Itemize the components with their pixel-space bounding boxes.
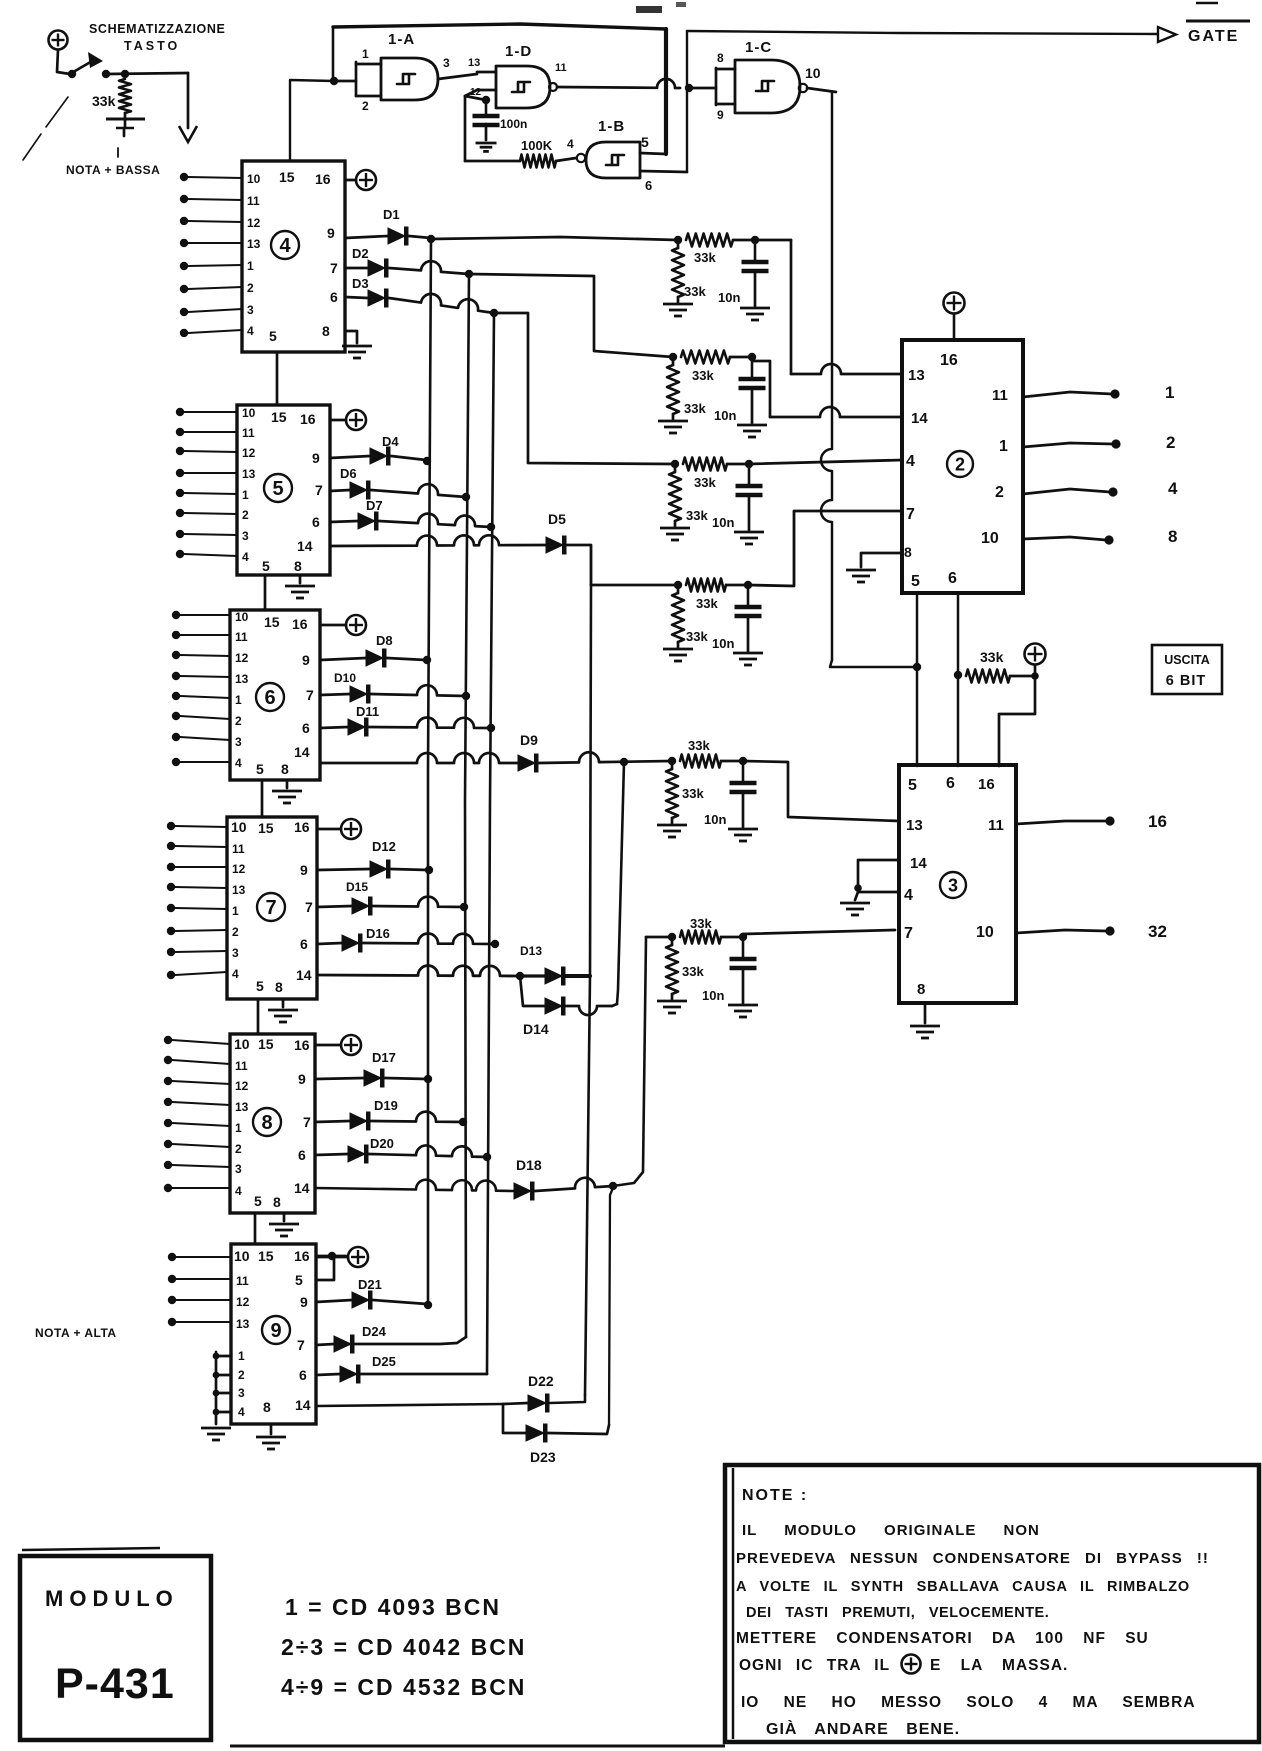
svg-text:16: 16 — [978, 776, 995, 793]
node D4-bus1 — [423, 457, 431, 465]
svg-text:33k: 33k — [684, 284, 706, 299]
svg-text:5: 5 — [641, 134, 649, 150]
node D19-bus2 — [459, 1118, 467, 1126]
svg-text:10: 10 — [981, 530, 999, 547]
svg-text:6: 6 — [946, 775, 955, 792]
svg-text:NOTE :: NOTE : — [742, 1487, 808, 1504]
note line 5 — [736, 1630, 1149, 1647]
node out bit32 — [1105, 926, 1114, 935]
ground U2 pin8 — [846, 553, 902, 582]
svg-text:6: 6 — [312, 514, 320, 530]
wire U2 out pin10 — [1023, 537, 1106, 540]
diode D10 — [320, 671, 371, 704]
wire junction to 1-C bracket — [689, 87, 716, 90]
svg-text:4: 4 — [906, 453, 915, 470]
node R2/U3pin16 — [1031, 672, 1039, 680]
diode D20 — [315, 1136, 394, 1164]
wire U7 pin14 row — [317, 966, 520, 976]
node D2-bus2 — [465, 270, 473, 278]
wire 1-D out to gate node — [557, 79, 680, 88]
IC U2 (CD4042 BCN) box — [902, 340, 1023, 593]
svg-text:D2: D2 — [352, 246, 369, 261]
IC U8 input lines from keyboard — [164, 1036, 230, 1192]
diode D15 — [317, 880, 373, 916]
node polarity junction — [954, 671, 962, 679]
svg-text:6: 6 — [330, 289, 338, 305]
svg-text:1: 1 — [247, 259, 254, 273]
svg-text:5: 5 — [262, 558, 270, 574]
svg-text:33k: 33k — [682, 964, 704, 979]
svg-text:10: 10 — [805, 65, 821, 81]
diode D12 — [317, 839, 396, 879]
op-amp U1-D (CD4093 NAND) — [496, 43, 550, 108]
node D21-bus1 — [424, 1301, 432, 1309]
svg-text:1: 1 — [235, 693, 242, 707]
diode D1 — [345, 207, 409, 246]
svg-text:10: 10 — [235, 610, 249, 624]
svg-text:16: 16 — [300, 411, 316, 427]
svg-text:13: 13 — [242, 467, 256, 481]
wire D20 to bus3 — [369, 1145, 487, 1157]
note line 4 — [746, 1605, 1049, 1621]
IC U4 input lines from keyboard — [180, 173, 242, 337]
svg-text:OGNI IC TRA IL: OGNI IC TRA IL — [739, 1657, 890, 1674]
svg-text:4: 4 — [567, 137, 574, 151]
wire bus3 (pin6 outputs) — [487, 313, 494, 1374]
svg-text:PREVEDEVA NESSUN CONDENSATORE: PREVEDEVA NESSUN CONDENSATORE DI BYPASS … — [736, 1550, 1209, 1567]
svg-text:NOTA + ALTA: NOTA + ALTA — [35, 1326, 117, 1340]
svg-text:13: 13 — [906, 817, 923, 834]
IC U9 box — [231, 1244, 316, 1424]
node D11-bus3 — [487, 724, 495, 732]
wire D3 to bus3 — [389, 294, 494, 313]
pin 1-D output bubble — [549, 62, 567, 91]
svg-text:8: 8 — [917, 981, 925, 998]
power + U7 — [317, 819, 361, 839]
diode D6 — [330, 466, 371, 500]
capacitor C1 100n — [465, 90, 527, 151]
svg-text:6: 6 — [302, 720, 310, 736]
svg-text:D9: D9 — [520, 732, 538, 748]
svg-text:5: 5 — [254, 1193, 262, 1209]
wire RC4 to U2 pin7 — [748, 511, 902, 586]
note line 1 — [742, 1522, 1040, 1539]
svg-text:14: 14 — [294, 744, 310, 760]
svg-text:11: 11 — [242, 426, 255, 440]
label parts list 2 — [281, 1634, 526, 1660]
svg-text:2: 2 — [235, 714, 242, 728]
svg-text:5: 5 — [272, 478, 283, 500]
ground U3 pin8 — [910, 1003, 940, 1038]
svg-text:9: 9 — [717, 108, 724, 122]
svg-text:33k: 33k — [92, 93, 116, 109]
wire D12 to bus1 — [391, 869, 428, 870]
svg-text:13: 13 — [247, 237, 261, 251]
svg-text:8: 8 — [261, 1112, 272, 1134]
label USCITA 6 BIT box — [1152, 645, 1222, 694]
wire RC6 to U3 pin7 — [743, 930, 895, 934]
svg-text:33k: 33k — [690, 916, 712, 931]
svg-text:DEI TASTI PREMUTI, VELOCEMENTE: DEI TASTI PREMUTI, VELOCEMENTE. — [746, 1605, 1049, 1621]
diode D14 — [520, 976, 566, 1037]
svg-text:12: 12 — [236, 1295, 250, 1309]
svg-text:11: 11 — [232, 842, 245, 856]
label SCHEMATIZZAZIONE — [89, 22, 225, 36]
MODULO P-431 box — [20, 1548, 211, 1740]
wire U9 pins 1-4 tie — [213, 1349, 245, 1424]
node clock junction — [913, 663, 921, 671]
ground switch resistor — [106, 113, 145, 136]
svg-text:12: 12 — [242, 446, 256, 460]
wire chain U5 pin5 down — [264, 575, 267, 610]
svg-text:2: 2 — [362, 99, 369, 113]
node out bit8 — [1104, 535, 1113, 544]
resistor R1 100K — [520, 138, 556, 168]
node D20-bus3 — [483, 1153, 491, 1161]
svg-text:14: 14 — [295, 1397, 311, 1413]
wire D2 node to RC2 — [469, 274, 673, 357]
svg-text:5: 5 — [256, 761, 264, 777]
wire D10 to bus2 — [371, 685, 466, 696]
wire D4 to bus1 — [391, 456, 426, 460]
wire U2 out pin11 — [1023, 392, 1112, 397]
svg-text:4: 4 — [235, 756, 242, 770]
svg-text:D14: D14 — [523, 1021, 549, 1037]
svg-text:D18: D18 — [516, 1157, 542, 1173]
svg-text:D4: D4 — [382, 434, 399, 449]
svg-text:15: 15 — [258, 820, 274, 836]
svg-text:D17: D17 — [372, 1050, 396, 1065]
label out 32 — [1148, 922, 1167, 941]
ground U3 pins14/4 — [840, 860, 899, 915]
svg-text:7: 7 — [906, 506, 915, 523]
svg-text:1-A: 1-A — [388, 31, 415, 48]
wire D21 to bus1 — [373, 1300, 427, 1304]
svg-text:USCITA: USCITA — [1164, 653, 1210, 667]
svg-text:IO NE HO MESSO SOLO 4 MA SEMBR: IO NE HO MESSO SOLO 4 MA SEMBRA — [741, 1694, 1196, 1711]
diode D25 — [316, 1354, 396, 1384]
svg-text:10: 10 — [976, 924, 994, 941]
svg-text:13: 13 — [236, 1317, 250, 1331]
svg-text:1: 1 — [238, 1349, 245, 1363]
svg-text:9: 9 — [300, 1294, 308, 1310]
wire U3 out pin11 — [1016, 821, 1106, 824]
wire switch to resistor and arrow — [106, 73, 188, 74]
svg-text:10: 10 — [231, 819, 247, 835]
svg-text:13: 13 — [235, 672, 249, 686]
pin 1-C output bubble — [799, 65, 821, 92]
wire D18 to bit32 net — [535, 1178, 613, 1191]
node D6-bus2 — [462, 493, 470, 501]
pin stubs 1-D pins 13,12 — [468, 57, 496, 98]
svg-text:5: 5 — [256, 978, 264, 994]
note line 2 — [736, 1550, 1209, 1567]
svg-text:METTERE CONDENSATORI DA 100 NF: METTERE CONDENSATORI DA 100 NF SU — [736, 1630, 1149, 1647]
wire junction to 1-A bracket — [334, 80, 356, 83]
wire chain U4 pin5 down — [276, 352, 279, 405]
svg-text:14: 14 — [294, 1180, 310, 1196]
IC U5 input lines from keyboard — [176, 408, 237, 558]
IC U7 circled number — [257, 893, 285, 921]
svg-text:11: 11 — [555, 62, 567, 74]
svg-text:9: 9 — [270, 1320, 281, 1342]
svg-text:5: 5 — [911, 573, 920, 590]
svg-text:16: 16 — [940, 352, 958, 369]
wire D9 to RC5 — [539, 752, 672, 763]
svg-text:2: 2 — [955, 455, 965, 475]
svg-text:6 BIT: 6 BIT — [1166, 673, 1206, 689]
svg-text:16: 16 — [294, 1248, 310, 1264]
svg-text:D25: D25 — [372, 1354, 396, 1369]
diode D5 — [546, 511, 567, 555]
svg-text:D20: D20 — [370, 1136, 394, 1151]
diode D3 — [345, 276, 389, 308]
svg-text:9: 9 — [300, 862, 308, 878]
node D18-bit32 — [609, 1182, 617, 1190]
svg-text:16: 16 — [294, 819, 310, 835]
svg-text:7: 7 — [315, 482, 323, 498]
label TASTO — [124, 39, 180, 53]
wire RC1 to U2 pin13 — [755, 240, 902, 374]
svg-text:12: 12 — [247, 216, 261, 230]
svg-text:D6: D6 — [340, 466, 357, 481]
svg-text:6: 6 — [300, 936, 308, 952]
svg-text:2: 2 — [995, 484, 1004, 501]
NOTE box — [725, 1465, 1259, 1742]
svg-text:6: 6 — [645, 178, 652, 193]
node out bit4 — [1108, 487, 1117, 496]
stray pencil mark — [23, 97, 68, 160]
node D10-bus2 — [462, 692, 470, 700]
wire D8 to bus1 — [387, 658, 426, 660]
wire U8 pin14 row — [315, 1180, 514, 1191]
svg-text:2: 2 — [235, 1142, 242, 1156]
wire D3 node to RC3 — [494, 313, 675, 464]
resistor R2 33k (polarity pullup) — [966, 649, 1032, 683]
IC U8 box — [230, 1034, 315, 1213]
node 1-A input junction — [330, 77, 338, 85]
svg-text:10: 10 — [234, 1248, 250, 1264]
label parts list 3 — [281, 1674, 526, 1700]
svg-text:7: 7 — [904, 925, 913, 942]
svg-text:33k: 33k — [696, 596, 718, 611]
svg-text:1-B: 1-B — [598, 118, 625, 135]
label MODULO — [45, 1586, 179, 1611]
wire 1-C out — [807, 88, 836, 92]
ground U8 — [269, 1213, 299, 1236]
resistor/cap network RC6 (bit32) — [657, 916, 758, 1017]
wire D16 to bus3 — [363, 934, 495, 944]
svg-text:7: 7 — [297, 1337, 305, 1353]
svg-text:A VOLTE IL SYNTH SBALLAVA CAUS: A VOLTE IL SYNTH SBALLAVA CAUSA IL RIMBA… — [736, 1579, 1190, 1595]
svg-text:16: 16 — [315, 171, 331, 187]
power + U5 — [330, 410, 366, 430]
svg-text:9: 9 — [298, 1071, 306, 1087]
label parts list 1 — [285, 1594, 501, 1620]
IC U3 circled number — [940, 872, 966, 898]
wire cap node to 100K — [465, 96, 520, 161]
IC U7 input lines from keyboard — [167, 822, 227, 979]
svg-text:3: 3 — [235, 1162, 242, 1176]
note line 6b — [930, 1657, 1068, 1674]
svg-text:D13: D13 — [520, 944, 542, 958]
svg-text:11: 11 — [236, 1274, 249, 1288]
resistor/cap network RC5 (bit16) — [657, 738, 758, 841]
svg-text:6: 6 — [948, 570, 957, 587]
svg-text:SCHEMATIZZAZIONE: SCHEMATIZZAZIONE — [89, 22, 225, 36]
svg-text:16: 16 — [294, 1037, 310, 1053]
svg-text:1: 1 — [235, 1121, 242, 1135]
wire D1 to bus1 — [409, 236, 431, 238]
power + R2 — [1025, 644, 1046, 677]
pin bracket 1-C pins 8,9 — [716, 51, 735, 122]
svg-text:11: 11 — [247, 194, 260, 208]
IC U4 box — [242, 161, 345, 352]
wire thick vertical to 1-B pin5 — [664, 29, 668, 154]
wire U9 pin14 row — [316, 1404, 503, 1406]
svg-text:8: 8 — [281, 761, 289, 777]
svg-text:D3: D3 — [352, 276, 369, 291]
wire bus2 (pin7 outputs) — [465, 274, 469, 1337]
node D12-bus1 — [425, 866, 433, 874]
wire chain U8 pin5 down — [254, 1213, 257, 1244]
svg-text:D11: D11 — [356, 704, 379, 719]
svg-text:33k: 33k — [692, 368, 714, 383]
svg-text:3: 3 — [242, 529, 249, 543]
svg-text:3: 3 — [238, 1386, 245, 1400]
IC U7 box — [227, 817, 317, 999]
resistor/cap network RC2 (bit2) — [658, 351, 767, 438]
wire bus1 to RC1 — [431, 237, 678, 240]
wire D2 to bus2 — [389, 261, 469, 274]
svg-text:13: 13 — [232, 883, 246, 897]
svg-text:D7: D7 — [366, 498, 383, 513]
svg-text:3: 3 — [232, 946, 239, 960]
label out 2 — [1166, 433, 1175, 452]
diode D2 — [345, 246, 389, 278]
op-amp U1-A (CD4093 NAND) — [381, 31, 438, 100]
svg-text:9: 9 — [312, 450, 320, 466]
wire D7 to bus3 — [379, 514, 491, 527]
svg-text:1: 1 — [242, 488, 249, 502]
wire D23 up to bit32 net — [548, 1425, 609, 1434]
svg-text:4: 4 — [232, 967, 239, 981]
resistor/cap network RC4 (bit8) — [663, 579, 763, 666]
node D7-bus3 — [487, 523, 495, 531]
svg-text:MODULO: MODULO — [45, 1586, 179, 1611]
power + U8 — [315, 1035, 361, 1055]
svg-text:10n: 10n — [714, 408, 736, 423]
svg-text:16: 16 — [292, 616, 308, 632]
svg-text:8: 8 — [717, 51, 724, 65]
wire D5 to bit8 net — [567, 545, 591, 585]
arrow to keyboard line — [179, 73, 197, 142]
wire D22 to bit8 net — [550, 1395, 585, 1403]
node D13/D14 input — [516, 972, 524, 980]
svg-text:6: 6 — [264, 687, 275, 709]
svg-text:P-431: P-431 — [55, 1660, 175, 1708]
power + U4 — [345, 170, 376, 190]
diode D17 — [315, 1050, 396, 1088]
op-amp U1-C (CD4093 NAND) — [735, 39, 800, 113]
wire chain U6 pin5 down — [261, 780, 264, 817]
svg-text:1-C: 1-C — [745, 39, 772, 56]
svg-text:13: 13 — [468, 57, 480, 69]
wire bit32 vertical net — [613, 937, 646, 1186]
svg-text:12: 12 — [235, 1079, 249, 1093]
wire D23 vertical — [609, 1188, 613, 1425]
svg-text:1: 1 — [1165, 383, 1174, 402]
wire switch stem — [57, 50, 70, 74]
node D1-bus1 — [427, 235, 435, 243]
wire U5 pin14 row — [330, 535, 546, 546]
svg-text:10n: 10n — [704, 812, 726, 827]
svg-text:14: 14 — [297, 538, 313, 554]
svg-text:3: 3 — [235, 735, 242, 749]
svg-text:E LA MASSA.: E LA MASSA. — [930, 1657, 1068, 1674]
svg-text:3: 3 — [443, 56, 450, 70]
svg-text:1-D: 1-D — [505, 43, 532, 60]
svg-text:5: 5 — [908, 777, 917, 794]
svg-text:15: 15 — [258, 1248, 274, 1264]
svg-text:8: 8 — [294, 558, 302, 574]
svg-text:15: 15 — [264, 614, 280, 630]
IC U9 input lines from keyboard — [168, 1253, 231, 1326]
svg-text:32: 32 — [1148, 922, 1167, 941]
svg-text:IL MODULO ORIGINALE NON: IL MODULO ORIGINALE NON — [742, 1522, 1040, 1539]
svg-text:6: 6 — [299, 1367, 307, 1383]
IC U3 (CD4042 BCN) box — [899, 765, 1016, 1003]
diode D22 — [503, 1373, 554, 1413]
IC U9 circled number — [262, 1316, 290, 1344]
svg-text:10: 10 — [234, 1036, 250, 1052]
label out 4 — [1168, 479, 1178, 498]
svg-text:5: 5 — [295, 1272, 303, 1288]
wire U6 pin14 row — [320, 753, 518, 763]
svg-text:D10: D10 — [334, 671, 356, 685]
wire D19 to bus2 — [371, 1112, 463, 1122]
node D17-bus1 — [424, 1075, 432, 1083]
wire D6 to bus2 — [371, 484, 466, 497]
wire top feedback — [333, 24, 666, 29]
wire down to 1-A input — [332, 27, 335, 80]
svg-text:33k: 33k — [686, 629, 708, 644]
node out bit2 — [1111, 439, 1120, 448]
node gate junction — [685, 84, 693, 92]
svg-text:14: 14 — [910, 855, 927, 872]
svg-text:GATE: GATE — [1188, 28, 1239, 45]
wire 100K to 1-B output — [556, 137, 576, 161]
svg-text:13: 13 — [908, 367, 925, 384]
svg-text:4: 4 — [235, 1184, 242, 1198]
svg-text:3: 3 — [247, 303, 254, 317]
wire RC2 to U2 pin14 — [752, 361, 902, 417]
power + U2 — [944, 293, 965, 341]
ground U9 — [256, 1424, 286, 1449]
node D15-bus2 — [460, 903, 468, 911]
wire D13 to bit8 net — [566, 974, 590, 978]
svg-text:12: 12 — [232, 862, 246, 876]
diode D8 — [320, 633, 393, 668]
IC U8 circled number — [253, 1108, 281, 1136]
svg-text:8: 8 — [322, 323, 330, 339]
svg-text:9: 9 — [302, 652, 310, 668]
note line 8 — [766, 1719, 960, 1738]
svg-text:6: 6 — [298, 1147, 306, 1163]
power + U6 — [320, 615, 366, 635]
svg-text:1: 1 — [232, 904, 239, 918]
svg-text:D8: D8 — [376, 633, 393, 648]
